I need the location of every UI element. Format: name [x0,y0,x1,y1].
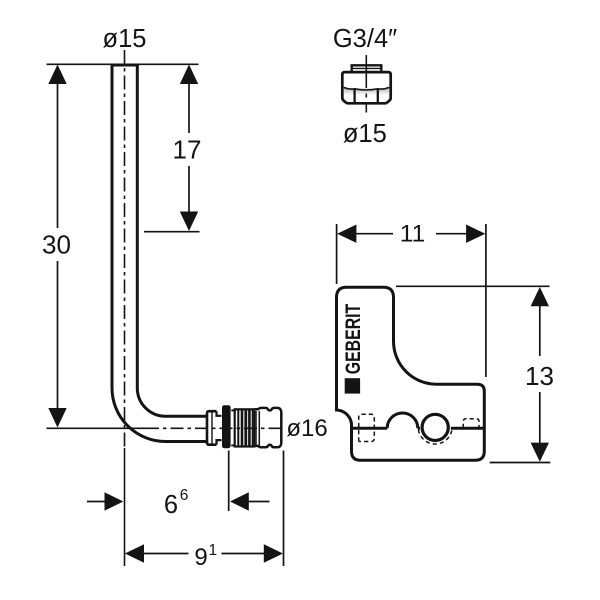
nut scallop line [344,87,390,90]
svg-text:30: 30 [42,230,71,260]
label 9^1 [194,542,217,571]
dashed clip detail right [463,419,479,428]
fitting middle ribs [256,411,259,446]
nut flat dividers [355,89,378,103]
svg-text:ø16: ø16 [286,415,327,442]
dashed circle (pipe ø) [418,430,452,444]
label 6^6 [164,487,188,519]
extension line 17 bottom tick [144,231,200,233]
svg-text:G3/4″: G3/4″ [333,25,397,53]
extension line fitting end down [283,451,285,567]
svg-text:13: 13 [525,361,554,391]
press fitting sleeve [207,411,222,445]
bracket pipe-channel line with bump and circle [352,413,484,441]
dimension 30 arrow up [48,65,66,229]
bracket outline [337,287,485,460]
svg-text:1: 1 [208,542,217,559]
svg-text:17: 17 [173,135,202,165]
nut centerline [365,55,367,113]
svg-text:ø15: ø15 [343,120,387,148]
svg-text:6: 6 [164,491,178,519]
pipe vertical centerline [124,50,126,448]
dimension 17 arrow down [180,166,198,231]
dimension 6.6 left arrow [87,492,123,510]
dimension 6.6 right arrow [230,492,270,510]
dimension 11 [337,224,486,377]
svg-text:GEBERIT: GEBERIT [342,304,365,375]
fitting barb section [235,409,255,446]
extension line from press ring down [228,451,230,512]
dimension 13 [396,286,550,462]
dashed clip detail left [359,414,375,441]
extension line pipe top [47,63,199,65]
svg-text:11: 11 [400,221,425,248]
press indicator ring (black) [222,405,231,448]
dimension 30 arrow down [48,261,66,428]
svg-text:9: 9 [194,544,207,571]
pipe centerline extension below [124,448,126,566]
svg-text:ø15: ø15 [103,25,147,53]
fitting end profile with two ridges [231,408,281,447]
nut body [342,72,390,103]
horizontal centerline (pipe outlet axis) [47,427,286,429]
pipe (L-bend) [111,65,207,442]
svg-text:6: 6 [180,487,189,504]
nut top step [351,65,382,71]
dimension 17 arrow up [180,65,198,134]
dimension 9.1 line [125,544,283,562]
nut flats shading [344,89,389,96]
GEBERIT logotype [342,304,365,394]
